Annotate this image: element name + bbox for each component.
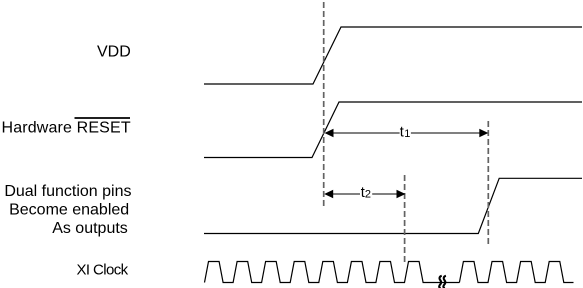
Hardware RESET waveform — [204, 102, 582, 158]
label Hardware RESET — [2, 118, 131, 137]
clock break mark left squiggle — [439, 276, 442, 288]
svg-text:As outputs: As outputs — [52, 220, 128, 237]
XI Clock waveform post-break — [459, 262, 573, 283]
svg-text:2: 2 — [365, 189, 371, 201]
t1 arrow — [325, 129, 489, 137]
svg-text:Become enabled: Become enabled — [9, 202, 129, 219]
svg-text:XI Clock: XI Clock — [77, 262, 129, 279]
clock break mark right squiggle — [443, 276, 446, 288]
dashed line B at t1 end — [487, 121, 489, 247]
VDD waveform — [204, 27, 582, 84]
svg-text:VDD: VDD — [97, 44, 131, 61]
t2 arrow — [324, 190, 405, 198]
svg-text:Hardware RESET: Hardware RESET — [2, 120, 131, 137]
label t2 — [361, 185, 371, 201]
dashed line A at VDD/RESET rising edge — [323, 2, 325, 206]
label t1 — [400, 125, 411, 141]
dashed line C at t2 end — [404, 175, 406, 262]
svg-text:Dual function pins: Dual function pins — [4, 183, 131, 200]
Dual function pins waveform — [204, 178, 582, 233]
svg-text:1: 1 — [404, 128, 410, 140]
XI Clock waveform pre-break — [205, 262, 460, 283]
label Dual function pins / Become enabled / As outputs — [4, 183, 131, 237]
